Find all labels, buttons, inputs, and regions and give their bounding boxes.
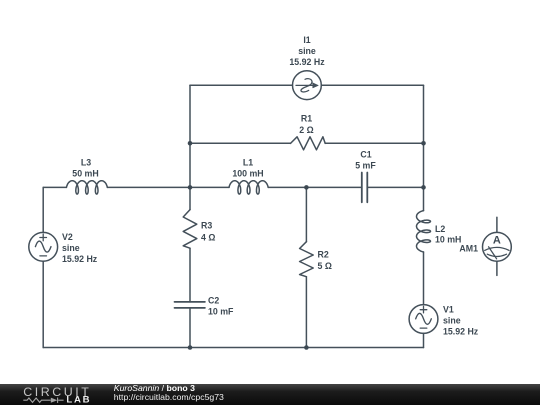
wire right column top to L2 — [423, 85, 425, 210]
capacitor C1 — [362, 173, 368, 203]
svg-text:http://circuitlab.com/cpc5g73: http://circuitlab.com/cpc5g73 — [114, 392, 224, 402]
resistor R2 — [300, 242, 314, 277]
wire left vertical x=190 top to R1 row — [189, 85, 191, 143]
label L2 — [435, 224, 461, 245]
label V2 — [62, 232, 98, 264]
wire right column L2 to V1 — [423, 252, 425, 305]
wire R1 row left segment — [190, 142, 291, 144]
resistor R1 — [291, 137, 326, 150]
wire mid row left end to L3 — [43, 186, 66, 188]
svg-text:AM1: AM1 — [459, 244, 478, 254]
svg-text:R1: R1 — [301, 114, 312, 124]
svg-text:5 Ω: 5 Ω — [318, 261, 332, 271]
svg-text:10 mF: 10 mF — [208, 307, 234, 317]
wire bottom row — [43, 347, 423, 349]
svg-text:sine: sine — [62, 243, 80, 253]
junction node x=190 R1 row — [188, 141, 193, 146]
wire top row right of I1 — [321, 84, 423, 86]
svg-text:R3: R3 — [201, 221, 212, 231]
junction node x=423.5 mid row — [421, 185, 426, 190]
wire mid row C1 to right column — [367, 186, 423, 188]
resistor R3 — [183, 210, 197, 249]
wire R1 row right segment — [325, 142, 423, 144]
inductor L1 — [229, 181, 268, 194]
label C2 — [208, 296, 234, 317]
logo diode triangle — [51, 398, 58, 403]
wire left column V2 to bottom row — [42, 261, 44, 347]
svg-text:sine: sine — [298, 46, 316, 56]
wire x=190 from R1 row to mid row — [189, 143, 191, 187]
label V1 — [443, 305, 479, 337]
capacitor C2 — [175, 302, 205, 308]
wire R2 to bottom row — [305, 277, 307, 348]
wire x=190 R3 to C2 — [189, 248, 191, 302]
voltage source V2 — [29, 232, 58, 261]
svg-text:4 Ω: 4 Ω — [201, 233, 215, 243]
wire mid row L3 to L1 — [107, 186, 229, 188]
voltage source V1 — [409, 305, 438, 334]
svg-text:V1: V1 — [443, 305, 454, 315]
ammeter AM1 — [483, 217, 512, 275]
svg-text:sine: sine — [443, 316, 461, 326]
logo schematic line with resistor and diode — [23, 398, 63, 403]
svg-text:LAB: LAB — [66, 395, 91, 405]
wire left column mid row to V2 — [42, 187, 44, 232]
wire top row left of I1 — [190, 84, 292, 86]
svg-text:15.92 Hz: 15.92 Hz — [443, 327, 479, 337]
current source I1 — [293, 71, 322, 100]
svg-text:L2: L2 — [435, 224, 445, 234]
wire x=190 C2 to bottom row — [189, 308, 191, 348]
wire right column V1 to bottom row — [423, 333, 425, 347]
label C1 — [355, 150, 376, 171]
inductor L2 — [417, 211, 431, 252]
svg-text:15.92 Hz: 15.92 Hz — [289, 57, 325, 67]
svg-text:10 mH: 10 mH — [435, 235, 461, 245]
svg-text:L3: L3 — [81, 158, 91, 168]
label R1 — [299, 114, 313, 136]
svg-text:I1: I1 — [303, 35, 310, 45]
svg-text:50 mH: 50 mH — [72, 169, 98, 179]
inductor L3 — [66, 181, 107, 194]
label R2 — [318, 250, 332, 272]
wire R2 column mid row to R2 — [305, 187, 307, 241]
junction node x=423.5 R1 row — [421, 141, 426, 146]
label L1 — [232, 158, 263, 179]
junction node x=190 bottom row — [188, 345, 193, 350]
svg-text:C1: C1 — [360, 150, 371, 160]
svg-text:A: A — [493, 235, 501, 247]
svg-text:R2: R2 — [318, 250, 329, 260]
label L3 — [72, 158, 98, 179]
svg-text:C2: C2 — [208, 296, 219, 306]
svg-text:V2: V2 — [62, 232, 73, 242]
label R3 — [201, 221, 215, 243]
svg-text:2 Ω: 2 Ω — [299, 125, 313, 135]
svg-text:100 mH: 100 mH — [232, 169, 263, 179]
svg-text:5 mF: 5 mF — [355, 161, 376, 171]
wire mid row L1 to C1 — [268, 186, 362, 188]
label I1 — [289, 35, 325, 67]
svg-text:L1: L1 — [243, 158, 253, 168]
junction node x=306.4 mid row — [304, 185, 309, 190]
junction node x=190 mid row — [188, 185, 193, 190]
wire x=190 mid row to R3 — [189, 187, 191, 209]
junction node x=306.4 bottom row — [304, 345, 309, 350]
svg-text:15.92 Hz: 15.92 Hz — [62, 254, 98, 264]
